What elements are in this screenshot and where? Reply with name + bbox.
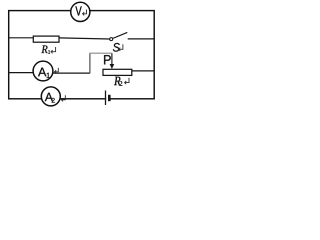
switch S pivot — [110, 38, 113, 41]
ammeter A2 — [41, 87, 60, 106]
wire A1 row left stub — [9, 72, 34, 74]
ammeter A1 — [33, 61, 53, 81]
return mark after V — [83, 10, 87, 16]
label R2 — [114, 77, 122, 86]
wire R2 to right rail — [132, 70, 154, 72]
wiper arrow P shaft — [111, 54, 113, 65]
resistor R1 — [33, 36, 59, 42]
return mark after A2 — [61, 95, 65, 101]
wire R1 row left stub — [9, 37, 34, 39]
switch S lever — [113, 32, 128, 38]
return mark after A1 — [55, 68, 59, 74]
battery long plate — [105, 91, 107, 106]
wire R1 to switch — [59, 38, 110, 39]
wire wiper horizontal bar — [89, 52, 112, 54]
return mark after R1 — [51, 47, 56, 53]
voltmeter V — [71, 2, 90, 21]
rheostat R2 — [103, 69, 132, 75]
label S — [113, 43, 120, 52]
battery short plate — [108, 95, 111, 101]
wire wiper riser vertical — [89, 53, 91, 73]
return mark after S — [119, 44, 123, 51]
label R1 — [41, 45, 50, 53]
wire switch to right rail — [128, 38, 155, 40]
return mark after R2 — [125, 78, 129, 84]
battery white gap — [106, 97, 108, 100]
wire outer loop — [9, 11, 155, 99]
label P — [104, 55, 111, 64]
wiper arrow head — [110, 64, 115, 69]
wire A1 to wiper riser — [53, 72, 90, 74]
